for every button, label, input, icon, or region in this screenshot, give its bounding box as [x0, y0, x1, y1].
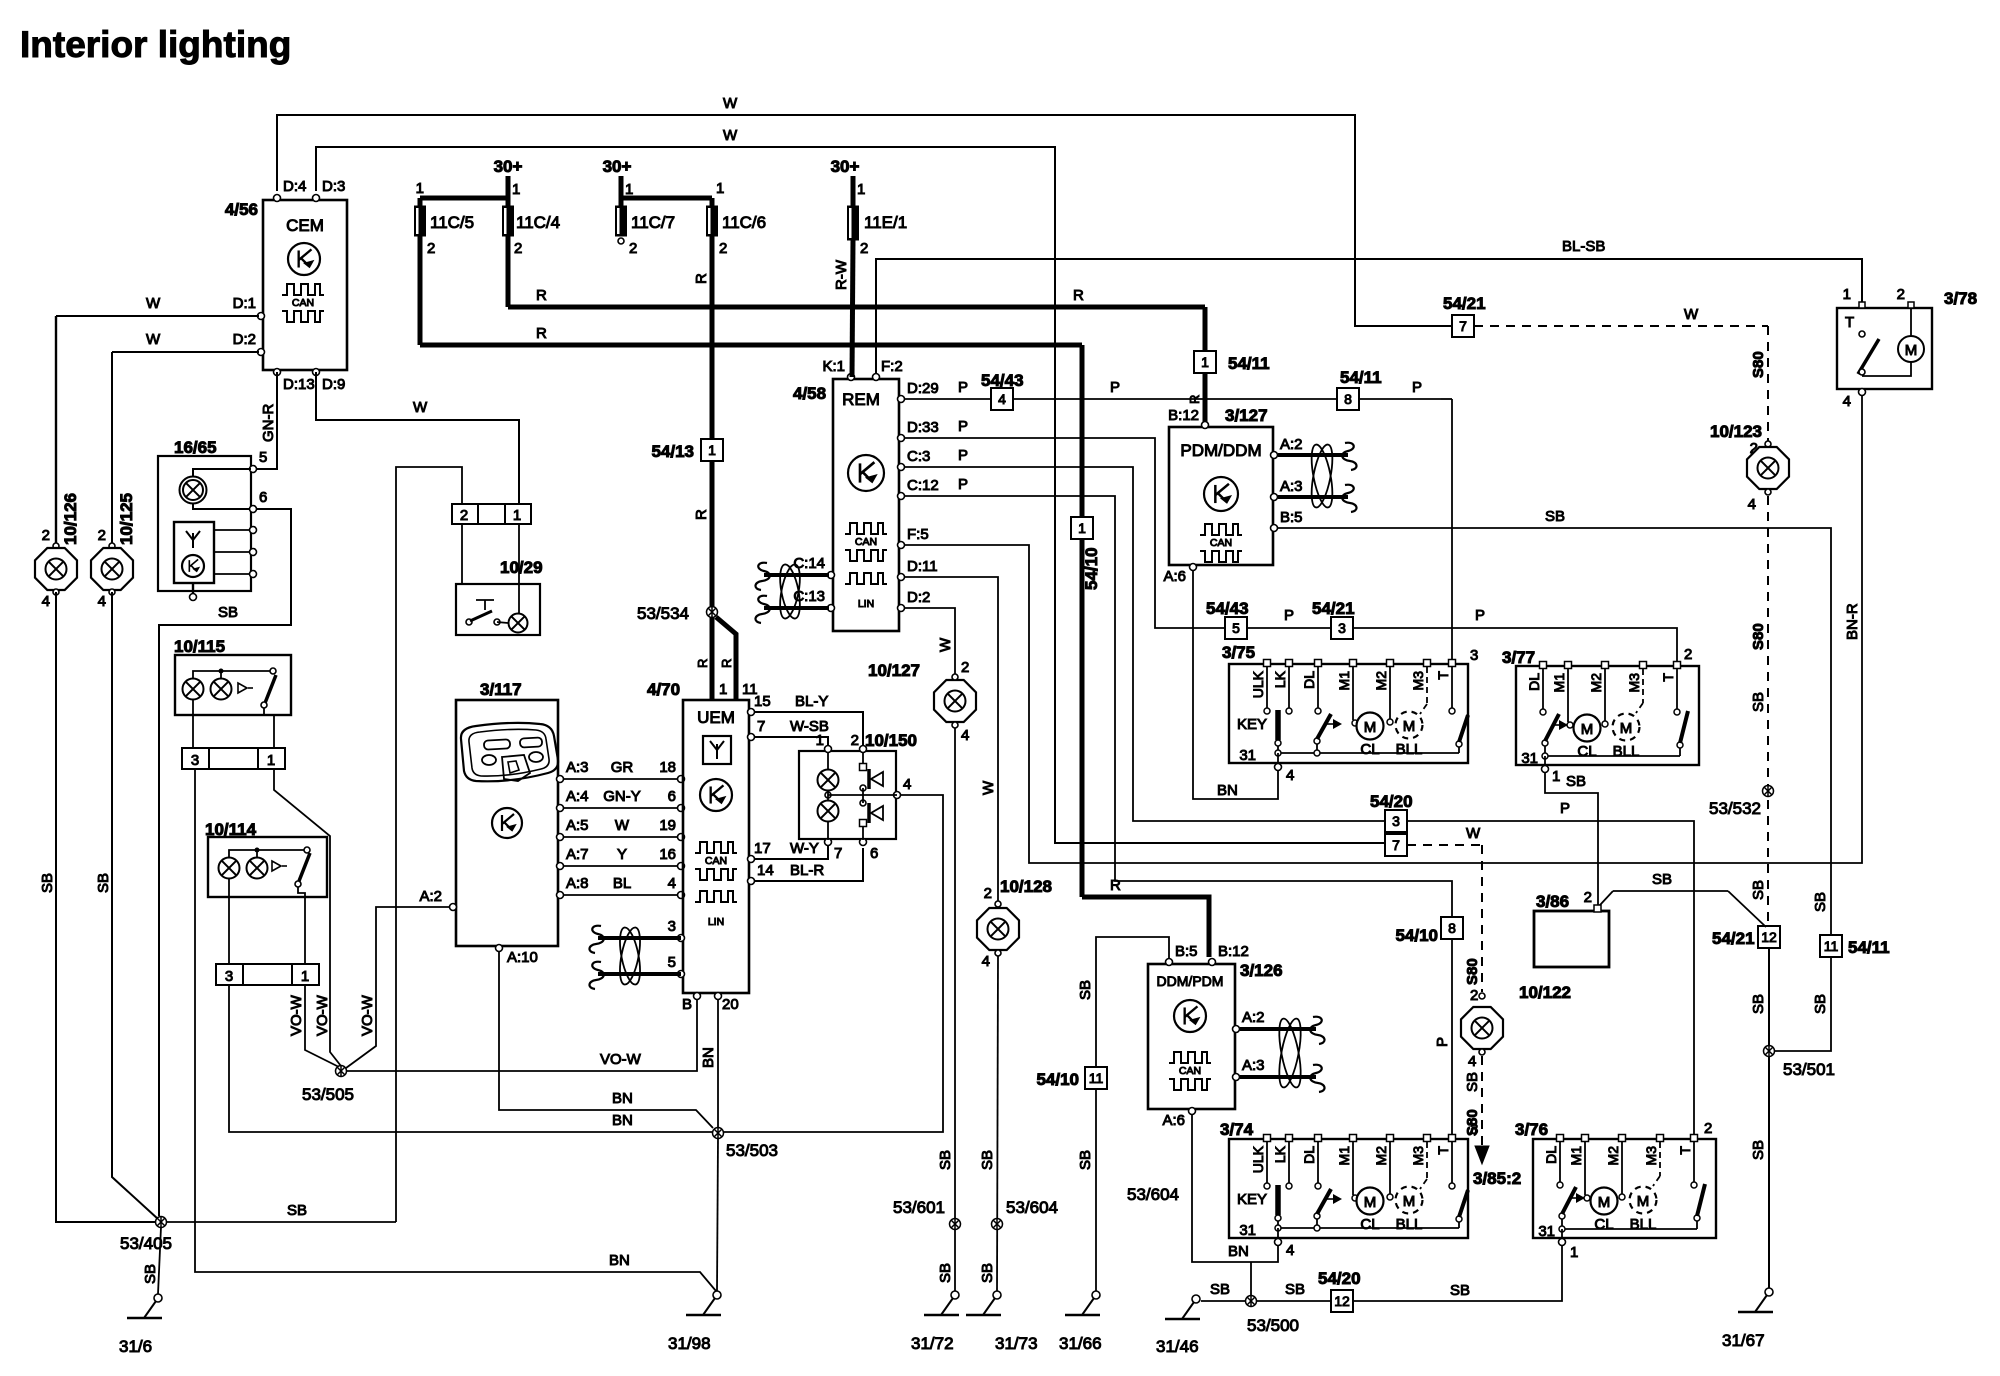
svg-text:10/126: 10/126	[61, 493, 80, 545]
svg-text:1: 1	[301, 968, 309, 985]
svg-text:PDM/DDM: PDM/DDM	[1180, 441, 1261, 460]
svg-text:2: 2	[984, 885, 992, 902]
svg-text:11C/5: 11C/5	[430, 213, 474, 232]
svg-text:REM: REM	[842, 390, 880, 409]
svg-text:R-W: R-W	[833, 259, 850, 290]
svg-text:SB: SB	[287, 1202, 307, 1219]
svg-text:30+: 30+	[603, 157, 632, 176]
svg-text:B: B	[682, 996, 692, 1013]
svg-text:D:33: D:33	[907, 419, 939, 436]
svg-text:11C/7: 11C/7	[631, 213, 675, 232]
svg-text:A:6: A:6	[1163, 568, 1186, 585]
svg-text:SB: SB	[979, 1263, 996, 1283]
svg-text:W: W	[980, 780, 997, 795]
svg-text:B:5: B:5	[1280, 509, 1303, 526]
svg-text:A:7: A:7	[566, 846, 589, 863]
svg-text:SB: SB	[1077, 980, 1094, 1000]
svg-text:P: P	[958, 379, 968, 396]
svg-text:1: 1	[1552, 768, 1560, 785]
svg-text:SB: SB	[1750, 692, 1767, 712]
svg-text:3: 3	[1470, 647, 1478, 664]
svg-text:3/78: 3/78	[1944, 289, 1977, 308]
svg-text:53/405: 53/405	[120, 1234, 172, 1253]
svg-text:2: 2	[1470, 987, 1478, 1004]
svg-text:A:3: A:3	[1280, 478, 1303, 495]
svg-text:R: R	[719, 659, 734, 668]
svg-text:4/58: 4/58	[793, 384, 826, 403]
svg-text:SB: SB	[1285, 1281, 1305, 1298]
svg-text:S80: S80	[1464, 958, 1481, 985]
svg-text:4: 4	[98, 593, 106, 610]
svg-text:F:5: F:5	[907, 526, 929, 543]
svg-text:1: 1	[416, 180, 424, 197]
svg-text:2: 2	[1704, 1120, 1712, 1137]
svg-text:1: 1	[716, 180, 724, 197]
svg-text:GN-Y: GN-Y	[603, 788, 641, 805]
svg-text:3/75: 3/75	[1222, 643, 1255, 662]
svg-text:20: 20	[722, 996, 739, 1013]
svg-text:SB: SB	[1750, 994, 1767, 1014]
svg-text:12: 12	[1334, 1293, 1350, 1309]
svg-text:6: 6	[668, 788, 676, 805]
svg-text:BN: BN	[612, 1090, 633, 1107]
svg-text:54/21: 54/21	[1443, 294, 1486, 313]
svg-text:DDM/PDM: DDM/PDM	[1157, 973, 1224, 989]
svg-text:18: 18	[659, 759, 676, 776]
svg-text:1: 1	[267, 752, 275, 769]
svg-text:2: 2	[514, 240, 522, 257]
svg-text:R: R	[1073, 287, 1084, 304]
svg-text:10/125: 10/125	[117, 493, 136, 545]
svg-text:11: 11	[1824, 938, 1839, 954]
svg-text:53/503: 53/503	[726, 1141, 778, 1160]
svg-text:A:8: A:8	[566, 875, 589, 892]
svg-text:54/11: 54/11	[1228, 354, 1270, 373]
svg-text:54/10: 54/10	[1082, 547, 1101, 590]
svg-text:30+: 30+	[494, 157, 523, 176]
svg-text:1: 1	[625, 181, 633, 198]
svg-text:3: 3	[225, 968, 233, 985]
svg-text:1: 1	[513, 507, 521, 524]
svg-text:3: 3	[1392, 813, 1400, 829]
svg-text:R: R	[536, 287, 547, 304]
svg-text:10/29: 10/29	[500, 558, 543, 577]
svg-text:15: 15	[754, 693, 771, 710]
svg-text:11C/6: 11C/6	[722, 213, 766, 232]
svg-text:8: 8	[1448, 920, 1456, 936]
svg-text:2: 2	[719, 240, 727, 257]
svg-text:BN-R: BN-R	[1844, 603, 1861, 640]
svg-text:P: P	[1475, 607, 1485, 624]
svg-text:D:13: D:13	[283, 376, 315, 393]
svg-text:54/43: 54/43	[1206, 599, 1249, 618]
svg-text:T: T	[1845, 314, 1854, 331]
svg-text:1: 1	[1201, 354, 1209, 370]
svg-text:54/20: 54/20	[1318, 1269, 1361, 1288]
svg-text:BL-SB: BL-SB	[1562, 238, 1605, 255]
svg-text:SB: SB	[218, 604, 238, 621]
svg-text:3/86: 3/86	[1536, 892, 1569, 911]
svg-text:2: 2	[460, 507, 468, 524]
svg-text:D:2: D:2	[233, 331, 256, 348]
svg-text:SB: SB	[1464, 1072, 1481, 1092]
svg-text:P: P	[958, 418, 968, 435]
svg-text:3/74: 3/74	[1220, 1120, 1254, 1139]
svg-text:M: M	[1905, 342, 1918, 359]
svg-text:2: 2	[629, 240, 637, 257]
svg-text:CEM: CEM	[286, 216, 324, 235]
svg-text:4: 4	[668, 875, 676, 892]
svg-text:4/56: 4/56	[225, 200, 258, 219]
svg-text:2: 2	[860, 240, 868, 257]
svg-text:VO-W: VO-W	[359, 994, 376, 1036]
svg-text:10/128: 10/128	[1000, 877, 1052, 896]
svg-text:53/501: 53/501	[1783, 1060, 1835, 1079]
svg-text:10/122: 10/122	[1519, 983, 1571, 1002]
svg-text:SB: SB	[95, 873, 112, 893]
svg-text:SB: SB	[1812, 892, 1829, 912]
svg-text:LIN: LIN	[858, 598, 874, 610]
svg-text:31/6: 31/6	[119, 1337, 152, 1356]
svg-text:1: 1	[857, 181, 865, 198]
svg-text:16/65: 16/65	[174, 438, 217, 457]
svg-text:D:9: D:9	[322, 376, 345, 393]
svg-text:6: 6	[870, 845, 878, 862]
svg-text:CAN: CAN	[1179, 1065, 1201, 1077]
svg-text:B:5: B:5	[1175, 943, 1198, 960]
svg-text:7: 7	[1392, 837, 1400, 853]
svg-text:SB: SB	[937, 1263, 954, 1283]
svg-text:5: 5	[1232, 620, 1240, 636]
svg-text:31/67: 31/67	[1722, 1331, 1765, 1350]
svg-text:10/123: 10/123	[1710, 422, 1762, 441]
svg-text:3: 3	[1338, 620, 1346, 636]
svg-text:A:10: A:10	[507, 949, 538, 966]
svg-text:W: W	[146, 331, 161, 348]
svg-text:7: 7	[757, 718, 765, 735]
svg-text:VO-W: VO-W	[314, 994, 331, 1036]
svg-text:CAN: CAN	[705, 855, 727, 867]
svg-text:2: 2	[851, 732, 859, 749]
svg-text:4: 4	[1286, 1242, 1294, 1259]
svg-text:Y: Y	[617, 846, 627, 863]
svg-text:53/532: 53/532	[1709, 799, 1761, 818]
svg-text:4: 4	[982, 953, 990, 970]
svg-text:5: 5	[259, 449, 267, 466]
svg-text:A:2: A:2	[1242, 1009, 1265, 1026]
svg-text:2: 2	[961, 659, 969, 676]
svg-text:W: W	[146, 295, 161, 312]
svg-text:14: 14	[757, 862, 774, 879]
svg-text:D:11: D:11	[907, 558, 938, 575]
svg-text:W: W	[1684, 306, 1699, 323]
svg-text:P: P	[958, 447, 968, 464]
svg-text:BL: BL	[613, 875, 631, 892]
svg-text:D:1: D:1	[233, 295, 256, 312]
svg-text:1: 1	[708, 442, 716, 458]
svg-text:54/13: 54/13	[651, 442, 694, 461]
svg-text:4: 4	[1468, 1053, 1476, 1070]
svg-text:SB: SB	[142, 1264, 159, 1284]
svg-text:C:3: C:3	[907, 448, 930, 465]
svg-text:CAN: CAN	[1210, 537, 1232, 549]
svg-text:CAN: CAN	[855, 536, 877, 548]
svg-text:7: 7	[1459, 318, 1467, 334]
svg-text:6: 6	[259, 489, 267, 506]
svg-text:W: W	[723, 95, 738, 112]
svg-text:53/604: 53/604	[1127, 1185, 1179, 1204]
svg-text:SB: SB	[1210, 1281, 1230, 1298]
svg-text:BL-Y: BL-Y	[795, 693, 828, 710]
svg-text:10/115: 10/115	[174, 637, 225, 656]
svg-text:BN: BN	[612, 1112, 633, 1129]
svg-text:SB: SB	[1077, 1150, 1094, 1170]
svg-text:BL-R: BL-R	[790, 862, 824, 879]
svg-text:3/127: 3/127	[1225, 406, 1268, 425]
svg-text:4: 4	[1748, 496, 1756, 513]
svg-text:3: 3	[191, 752, 199, 769]
svg-text:W-Y: W-Y	[790, 840, 819, 857]
svg-text:3/85:2: 3/85:2	[1473, 1169, 1521, 1188]
svg-text:W: W	[937, 637, 954, 652]
svg-text:4: 4	[961, 727, 969, 744]
svg-text:P: P	[1560, 800, 1570, 817]
svg-text:53/604: 53/604	[1006, 1198, 1058, 1217]
svg-text:BN: BN	[609, 1252, 630, 1269]
svg-text:54/10: 54/10	[1036, 1070, 1079, 1089]
svg-text:53/505: 53/505	[302, 1085, 354, 1104]
svg-text:W: W	[1466, 825, 1481, 842]
svg-text:54/20: 54/20	[1370, 792, 1413, 811]
svg-text:BN: BN	[1217, 782, 1238, 799]
svg-text:UEM: UEM	[697, 708, 735, 727]
svg-text:11: 11	[1089, 1070, 1104, 1086]
svg-text:R: R	[536, 325, 547, 342]
svg-text:A:3: A:3	[1242, 1057, 1265, 1074]
svg-text:SB: SB	[1652, 871, 1672, 888]
svg-text:B:12: B:12	[1218, 943, 1249, 960]
svg-text:54/21: 54/21	[1312, 599, 1355, 618]
svg-text:A:5: A:5	[566, 817, 589, 834]
svg-text:B:12: B:12	[1168, 407, 1199, 424]
svg-text:SB: SB	[39, 873, 56, 893]
svg-text:S80: S80	[1750, 623, 1767, 650]
svg-text:W: W	[413, 399, 428, 416]
svg-text:12: 12	[1761, 929, 1777, 945]
svg-text:SB: SB	[1566, 773, 1586, 790]
svg-text:VO-W: VO-W	[600, 1051, 642, 1068]
svg-text:8: 8	[1344, 391, 1352, 407]
svg-text:P: P	[1284, 607, 1294, 624]
svg-text:1: 1	[719, 681, 727, 698]
svg-text:54/11: 54/11	[1340, 368, 1382, 387]
svg-text:SB: SB	[1750, 880, 1767, 900]
svg-text:2: 2	[427, 240, 435, 257]
svg-text:53/500: 53/500	[1247, 1316, 1299, 1335]
svg-text:11E/1: 11E/1	[864, 213, 907, 232]
svg-text:7: 7	[834, 845, 842, 862]
svg-text:10/127: 10/127	[868, 661, 920, 680]
svg-text:GN-R: GN-R	[260, 404, 277, 442]
svg-text:S80: S80	[1750, 351, 1767, 378]
svg-text:CAN: CAN	[292, 297, 314, 309]
svg-text:A:4: A:4	[566, 788, 589, 805]
svg-text:A:3: A:3	[566, 759, 589, 776]
svg-text:30+: 30+	[831, 157, 860, 176]
svg-text:D:29: D:29	[907, 380, 939, 397]
svg-text:19: 19	[659, 817, 676, 834]
svg-text:54/21: 54/21	[1712, 929, 1755, 948]
svg-text:K:1: K:1	[822, 358, 845, 375]
svg-text:W: W	[723, 127, 738, 144]
svg-text:54/43: 54/43	[981, 371, 1024, 390]
svg-text:2: 2	[1684, 646, 1692, 663]
svg-text:4: 4	[1843, 393, 1851, 410]
svg-text:P: P	[1412, 379, 1422, 396]
svg-text:GR: GR	[611, 759, 634, 776]
svg-text:VO-W: VO-W	[288, 994, 305, 1036]
svg-text:53/534: 53/534	[637, 604, 689, 623]
svg-text:Interior lighting: Interior lighting	[20, 24, 291, 65]
svg-text:SB: SB	[937, 1150, 954, 1170]
svg-text:16: 16	[659, 846, 676, 863]
svg-text:4: 4	[1286, 767, 1294, 784]
svg-text:W-SB: W-SB	[790, 718, 829, 735]
svg-text:1: 1	[1570, 1244, 1578, 1261]
svg-text:W: W	[615, 817, 630, 834]
svg-text:54/10: 54/10	[1395, 926, 1438, 945]
svg-text:4: 4	[903, 776, 911, 793]
svg-text:2: 2	[1584, 889, 1592, 906]
svg-text:P: P	[1434, 1037, 1451, 1047]
svg-text:2: 2	[98, 527, 106, 544]
svg-text:4/70: 4/70	[647, 680, 680, 699]
svg-text:C:12: C:12	[907, 477, 939, 494]
svg-text:D:2: D:2	[907, 589, 930, 606]
svg-text:1: 1	[1843, 286, 1851, 303]
svg-text:31/46: 31/46	[1156, 1337, 1199, 1356]
svg-text:10/150: 10/150	[865, 731, 917, 750]
svg-text:2: 2	[42, 527, 50, 544]
svg-text:31/98: 31/98	[668, 1334, 711, 1353]
svg-text:5: 5	[668, 954, 676, 971]
svg-text:2: 2	[1897, 286, 1905, 303]
svg-text:53/601: 53/601	[893, 1198, 945, 1217]
svg-text:SB: SB	[1812, 994, 1829, 1014]
svg-text:3: 3	[668, 918, 676, 935]
svg-text:11C/4: 11C/4	[516, 213, 560, 232]
svg-text:P: P	[1110, 379, 1120, 396]
svg-text:BN: BN	[1228, 1243, 1249, 1260]
svg-text:A:2: A:2	[1280, 436, 1303, 453]
svg-text:54/11: 54/11	[1848, 938, 1890, 957]
svg-text:4: 4	[998, 391, 1006, 407]
svg-text:R: R	[693, 509, 710, 520]
svg-text:1: 1	[1078, 520, 1086, 536]
svg-text:SB: SB	[1750, 1140, 1767, 1160]
svg-text:3/126: 3/126	[1240, 961, 1283, 980]
svg-text:3: 3	[1470, 1121, 1478, 1138]
svg-text:P: P	[958, 476, 968, 493]
svg-text:3/76: 3/76	[1515, 1120, 1548, 1139]
svg-text:1: 1	[512, 181, 520, 198]
svg-text:31/73: 31/73	[995, 1334, 1038, 1353]
svg-text:SB: SB	[1545, 508, 1565, 525]
svg-text:R: R	[693, 273, 710, 284]
svg-text:R: R	[695, 659, 710, 668]
svg-text:BN: BN	[700, 1047, 717, 1068]
svg-text:A:2: A:2	[419, 888, 442, 905]
svg-text:SB: SB	[979, 1150, 996, 1170]
svg-text:D:4: D:4	[283, 178, 306, 195]
svg-text:31/66: 31/66	[1059, 1334, 1102, 1353]
svg-text:3/117: 3/117	[480, 680, 522, 699]
svg-text:SB: SB	[1450, 1282, 1470, 1299]
svg-text:4: 4	[42, 593, 50, 610]
svg-text:A:6: A:6	[1162, 1112, 1185, 1129]
svg-text:31/72: 31/72	[911, 1334, 954, 1353]
svg-text:3/77: 3/77	[1502, 648, 1535, 667]
svg-text:17: 17	[754, 840, 771, 857]
svg-text:D:3: D:3	[322, 178, 345, 195]
svg-text:F:2: F:2	[881, 358, 903, 375]
svg-text:LIN: LIN	[708, 916, 724, 928]
